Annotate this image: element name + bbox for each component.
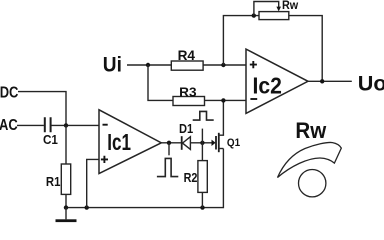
diode D1 (179, 121, 193, 150)
junction Ic1 + to rail (85, 205, 89, 209)
junction wiper (252, 13, 256, 17)
svg-text:Q1: Q1 (227, 137, 241, 149)
op-amp Ic2 (246, 49, 308, 113)
svg-text:R4: R4 (178, 48, 196, 63)
svg-text:AC: AC (0, 117, 18, 134)
svg-text:R3: R3 (179, 85, 196, 100)
wire Ui to R4 (127, 64, 171, 66)
wire Rw left branch (223, 16, 259, 65)
svg-text:R2: R2 (184, 170, 198, 185)
wire Ui branch down to R3 (148, 65, 173, 100)
transistor Q1 (212, 100, 241, 152)
resistor R4 (171, 48, 203, 70)
wire C1 to Ic1 inverting input (52, 124, 100, 126)
wire D1 to gate node (190, 142, 211, 144)
resistor R2 (184, 143, 208, 208)
potentiometer knob circle (299, 170, 326, 197)
wire DC input (18, 92, 66, 126)
svg-text:Ui: Ui (103, 52, 122, 76)
capacitor C1 (43, 117, 58, 147)
resistor R1 (46, 125, 71, 207)
potentiometer Rw (254, 0, 298, 20)
junction R2 to rail (200, 205, 204, 209)
pulse waveform annotation (clamped, above D1) (193, 111, 214, 120)
wire AC to C1 (17, 124, 44, 126)
wire R4 to Ic2 + (203, 64, 246, 66)
resistor R3 (173, 85, 205, 106)
wire Rw right to output (289, 16, 323, 82)
svg-text:Rw: Rw (282, 0, 298, 12)
junction output (320, 79, 324, 83)
svg-text:Uo: Uo (358, 71, 384, 95)
svg-text:Ic2: Ic2 (253, 72, 282, 98)
ground rail wire (65, 149, 223, 208)
wire Ic2 output (308, 80, 352, 82)
junction Ui (146, 63, 150, 67)
op-amp Ic1 (99, 110, 161, 174)
wire stub to pulse annotation below (168, 143, 170, 156)
junction R3/Q1 drain (221, 98, 225, 102)
junction D1/R2/gate (200, 141, 204, 145)
wire Ic1 non-inverting input to rail (87, 159, 99, 207)
svg-text:DC: DC (0, 84, 19, 101)
svg-text:Rw: Rw (295, 118, 326, 143)
potentiometer swoosh arrow (278, 142, 342, 177)
ground (56, 208, 77, 223)
junction R4/Rw left (221, 63, 225, 67)
pulse waveform annotation (output of Ic1) (157, 158, 178, 176)
wire R3 to Ic2 - (205, 99, 247, 101)
junction ground node (64, 205, 68, 209)
svg-text:R1: R1 (46, 174, 61, 189)
wire stub to pulse annotation above (201, 129, 203, 143)
svg-text:Ic1: Ic1 (107, 129, 131, 155)
wire Ic1 output (161, 142, 182, 144)
junction Ic1 output (167, 141, 171, 145)
svg-text:C1: C1 (43, 132, 58, 147)
node junction AC/DC (64, 123, 68, 127)
svg-text:D1: D1 (179, 121, 193, 136)
